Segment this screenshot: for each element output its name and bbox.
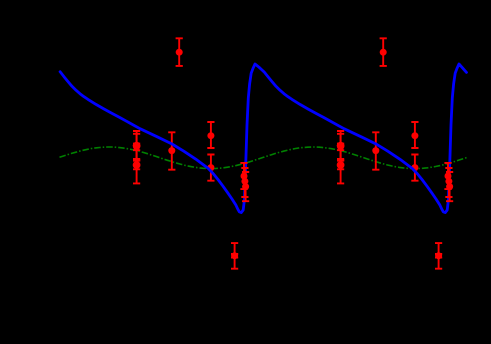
error bar P1b — [337, 131, 344, 160]
error bar P7a — [240, 163, 247, 189]
error bar P1ca — [133, 134, 140, 159]
error bar P8a — [241, 168, 248, 197]
error bar P9b — [446, 172, 453, 201]
data marker P5a — [207, 132, 214, 139]
data marker P3a — [168, 147, 175, 154]
data marker P6a — [207, 164, 214, 171]
error bar P7b — [444, 163, 451, 189]
error bar P4b — [380, 38, 387, 66]
data marker P9a — [242, 183, 249, 190]
error bar P9a — [242, 172, 249, 201]
data marker P10a — [231, 252, 238, 259]
error bar P10sb — [435, 254, 442, 258]
error bar P2sb — [337, 161, 344, 170]
error bar P1sb — [337, 144, 344, 151]
data marker P6b — [411, 164, 418, 171]
data marker P8b — [445, 178, 452, 185]
data marker P2b — [337, 161, 345, 169]
data marker P7a — [241, 173, 248, 180]
error bar P3a — [168, 132, 175, 169]
data marker P1b — [337, 142, 345, 150]
blue model curve (eccentric orbit RV model, two cycles) — [60, 64, 466, 213]
error bar P8b — [445, 168, 452, 197]
error bar P6b — [411, 155, 418, 181]
data marker P10b — [435, 252, 442, 259]
error bar P1cb — [337, 134, 344, 159]
error bar P3b — [372, 132, 379, 169]
error bar P2sa — [133, 161, 140, 170]
green model curve (dash-dot) — [60, 147, 468, 169]
data marker P1sb — [337, 143, 344, 150]
error bar P1sa — [133, 144, 140, 151]
data marker P1sa — [133, 143, 140, 150]
data marker P3b — [372, 147, 379, 154]
data marker P2a — [133, 161, 141, 169]
error bar P10sa — [231, 254, 238, 258]
error bar P4a — [176, 38, 183, 66]
data marker P7b — [445, 173, 452, 180]
data marker P8a — [241, 178, 248, 185]
error bar P6a — [207, 155, 214, 181]
error bar P1a — [133, 131, 140, 160]
error bar P2a — [133, 147, 140, 184]
data marker P1a — [133, 142, 141, 150]
error bar P2b — [337, 147, 344, 184]
data marker P4b — [380, 49, 387, 56]
error bar P5a — [207, 122, 214, 148]
data marker P4a — [176, 49, 183, 56]
data marker P5b — [411, 132, 418, 139]
data marker P9b — [446, 183, 453, 190]
error bar P5b — [411, 122, 418, 148]
error bar P10b — [435, 243, 442, 269]
error bar P10a — [231, 243, 238, 269]
